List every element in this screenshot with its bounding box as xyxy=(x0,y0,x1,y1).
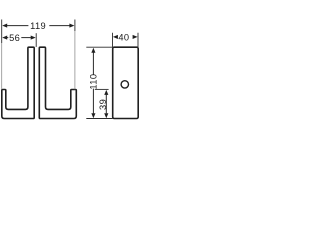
dim 40: right arrow xyxy=(133,35,138,39)
dim 119: right arrow xyxy=(69,24,74,28)
dim 119: left extension line xyxy=(1,20,3,44)
dim 119: left arrow xyxy=(2,24,7,28)
dim 110: top arrow xyxy=(91,48,95,53)
dim 56: line segments xyxy=(7,37,8,39)
dim 110: bottom arrow xyxy=(91,113,95,118)
side view: hook bar circle xyxy=(121,81,128,88)
svg-text:110: 110 xyxy=(88,74,98,90)
svg-text:40: 40 xyxy=(118,32,129,42)
front view: left hook unit xyxy=(2,47,34,118)
dim 110: line segments xyxy=(92,53,94,75)
dim 56: right arrow xyxy=(31,36,36,40)
dim 39: top arrow xyxy=(104,90,108,95)
svg-text:56: 56 xyxy=(9,33,20,43)
side view: body rectangle xyxy=(113,47,139,118)
dim 40: right tick xyxy=(137,33,139,48)
dim 56: left arrow xyxy=(2,36,7,40)
svg-text:119: 119 xyxy=(30,21,46,31)
dim 39: top extension line xyxy=(95,88,109,90)
dim 56: center extension tick xyxy=(35,33,37,47)
dim 40: left arrow xyxy=(113,35,118,39)
dim 119: line segments xyxy=(7,25,28,27)
dim 110: top extension line xyxy=(86,46,112,48)
svg-text:39: 39 xyxy=(98,99,108,110)
dim 39: bottom arrow xyxy=(104,113,108,118)
dim 119: right extension line xyxy=(74,20,76,32)
front view: right hook unit xyxy=(39,47,76,118)
dim 40: left tick xyxy=(112,33,114,48)
dim 39: line xyxy=(105,95,107,114)
dim 110: bottom extension line xyxy=(86,118,112,120)
